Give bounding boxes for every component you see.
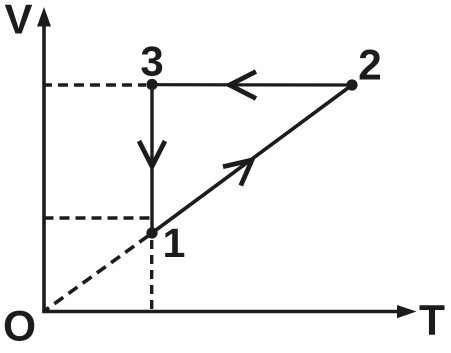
svg-text:2: 2 [358,43,382,90]
arrow 3 to 1 (down chevron) [139,141,165,167]
dashed isochore extension O to 1 [45,236,148,311]
axis T arrowhead [397,305,417,318]
axis V (vertical) [42,24,46,313]
process 3 to 1 (vertical line) [150,85,153,233]
dashed guide T1 vertical [150,240,153,309]
axis T (horizontal) [42,310,399,314]
dashed guide V3 level [46,83,147,86]
svg-text:1: 1 [163,220,186,266]
svg-text:V: V [4,0,32,43]
process 3 to 2 (horizontal line) [152,83,352,87]
arrow 2 to 3 (left chevron) [230,72,257,99]
axis V arrowhead [37,7,51,27]
node 3 dot [146,79,157,90]
node 1 dot [146,227,157,238]
svg-text:O: O [3,304,36,351]
dashed guide V1 level [46,216,152,219]
process 1 to 2 (diagonal line) [152,85,352,233]
node 2 dot [346,79,357,90]
svg-text:T: T [419,298,445,345]
arrow 1 to 2 (up-right chevron) [223,160,252,186]
svg-text:3: 3 [140,38,163,85]
